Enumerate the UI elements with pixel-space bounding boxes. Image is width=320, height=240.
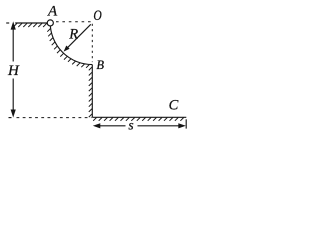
H dimension line upper part	[12, 27, 14, 62]
wall below B	[91, 65, 93, 118]
s dimension line left part	[98, 125, 126, 127]
H dimension bottom arrow	[11, 110, 16, 118]
svg-text:s: s	[128, 117, 133, 132]
H dimension top arrow	[11, 21, 16, 29]
radius arrowhead	[64, 46, 70, 52]
svg-text:R: R	[68, 26, 78, 42]
s right arrow	[178, 123, 186, 128]
s left arrow	[93, 123, 101, 128]
svg-text:H: H	[7, 63, 20, 79]
svg-text:O: O	[93, 7, 102, 24]
arc hatch	[47, 28, 89, 67]
dashed line A to O	[56, 21, 91, 23]
ceiling left tick	[6, 22, 9, 24]
dashed line O to B	[91, 24, 93, 62]
ground hatch	[93, 118, 184, 121]
arc A to B	[50, 23, 92, 65]
wall hatch	[89, 67, 92, 117]
svg-text:C: C	[169, 98, 179, 114]
s dimension line right part	[138, 125, 181, 127]
H dimension line lower part	[12, 79, 14, 114]
bottom dashed line	[17, 117, 92, 119]
svg-text:A: A	[47, 4, 58, 20]
right extension line	[185, 119, 187, 128]
radius arrow line	[66, 24, 90, 49]
svg-text:B: B	[96, 58, 104, 72]
bottom left tick	[9, 117, 12, 119]
point A circle	[47, 20, 53, 26]
ground line	[92, 116, 186, 118]
ceiling line	[15, 22, 47, 24]
ceiling hatch	[13, 23, 47, 27]
